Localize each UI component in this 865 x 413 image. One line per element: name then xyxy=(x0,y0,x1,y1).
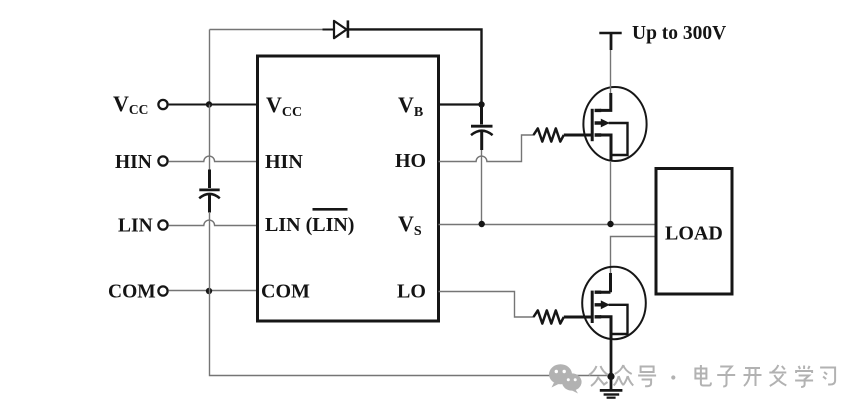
Q1 body arrow xyxy=(601,119,610,128)
char 众 xyxy=(614,365,634,386)
wire: LIN terminal to IC pin LIN (hop over vertical wire) xyxy=(169,220,258,225)
op-amp/IC U1 gate driver box xyxy=(258,56,439,321)
svg-text:VCC: VCC xyxy=(113,91,148,117)
wire: IC pin HO to gate resistor (hop over cap wire) xyxy=(439,135,535,162)
char 子 xyxy=(717,367,735,387)
wire: Vcc terminal to IC pin VCC xyxy=(169,104,258,106)
diode D1 (bootstrap diode) xyxy=(334,20,348,38)
resistor R1 (high-side gate) xyxy=(534,128,564,141)
wire: diode cathode to VB node (thick top-right corner) xyxy=(348,29,482,104)
Q2 gate electrode xyxy=(591,291,594,323)
label COM (external) xyxy=(108,282,156,303)
wire: top bootstrap rail left (Vcc node to diode anode) xyxy=(210,30,335,105)
label LOAD xyxy=(665,223,723,245)
Q1 body circle xyxy=(583,87,646,161)
wire: IC pin VS to LOAD (through VS node) xyxy=(439,224,656,226)
svg-text:COM: COM xyxy=(108,282,156,303)
wire: Q1 drain to 300V rail xyxy=(610,34,613,93)
svg-text:HIN: HIN xyxy=(265,151,303,173)
Q1 source lead xyxy=(600,135,611,162)
pin label COM (U1) xyxy=(261,281,310,303)
pin label HO (U1) xyxy=(395,150,426,172)
char 公 xyxy=(589,366,608,386)
transistor Q2 (low-side MOSFET) xyxy=(582,267,646,340)
Q2 drain lead xyxy=(600,273,611,292)
terminal COM xyxy=(158,286,167,295)
watermark text 公众号·电子开发学习 (drawn strokes) xyxy=(589,365,835,387)
Q1 gate electrode xyxy=(591,109,594,141)
Q2 body arrow xyxy=(601,300,610,309)
wire: Q1 source down to VS node xyxy=(610,161,612,225)
svg-text:LIN: LIN xyxy=(118,216,153,237)
char 号 xyxy=(638,367,656,387)
char 习 xyxy=(820,368,835,385)
separator dot xyxy=(671,375,675,379)
wire: HIN terminal to IC pin HIN (hop over vertical wire) xyxy=(169,156,258,161)
wire: Q2 source to ground node xyxy=(610,339,613,390)
node: VS-output junction xyxy=(607,221,613,227)
Q2 channel contacts xyxy=(595,292,602,317)
svg-text:Up to 300V: Up to 300V xyxy=(632,23,726,44)
Q1 channel contacts xyxy=(595,110,602,135)
node: VS-cap junction xyxy=(479,221,485,227)
node: COM junction xyxy=(206,288,212,294)
pin label VB (U1) xyxy=(398,92,423,120)
label Vcc (external) xyxy=(113,91,148,117)
node: ground junction xyxy=(607,373,614,380)
terminal Vcc xyxy=(158,100,167,109)
svg-text:HO: HO xyxy=(395,150,426,172)
label LIN (external) xyxy=(118,216,153,237)
wire: resistor R2 to Q2 gate xyxy=(564,316,592,319)
pin label VCC (U1) xyxy=(266,92,302,120)
wire: resistor R1 to Q1 gate xyxy=(564,134,592,137)
label HIN (external) xyxy=(115,152,152,173)
Q2 body circle xyxy=(582,267,646,339)
label Up to 300V xyxy=(632,23,726,44)
Q2 source lead xyxy=(600,317,611,340)
transistor Q1 (high-side MOSFET) xyxy=(583,87,646,162)
pin label HIN (U1) xyxy=(265,151,303,173)
Q2 body-to-source link xyxy=(609,305,628,334)
wire: IC pin LO to gate resistor R2 xyxy=(439,292,535,318)
char 学 xyxy=(795,366,813,388)
wire: half-bridge output to LOAD and down to Q2 drain xyxy=(611,237,656,274)
char 电 xyxy=(695,365,711,386)
wire: Vcc node down to decoupling cap C1 xyxy=(209,105,211,171)
svg-text:LOAD: LOAD xyxy=(665,223,723,245)
char 发 xyxy=(769,365,786,386)
terminal HIN xyxy=(158,156,167,165)
svg-text:COM: COM xyxy=(261,281,310,303)
ground xyxy=(600,390,623,397)
power rail: Up to 300V T-bar xyxy=(599,32,621,35)
terminal LIN xyxy=(158,220,167,229)
char 开 xyxy=(744,368,762,386)
wire: IC pin VB to VB node xyxy=(439,103,482,105)
wire: cap C2 bottom to VS node xyxy=(481,150,483,225)
resistor R2 (low-side gate) xyxy=(534,310,564,323)
pin label LO (U1) xyxy=(397,281,426,303)
pin label LIN (LIN-bar) (U1) xyxy=(265,209,354,236)
wire: COM terminal to IC pin COM xyxy=(169,290,258,292)
svg-text:LO: LO xyxy=(397,281,426,303)
node: Vcc junction xyxy=(206,101,212,107)
Q1 body-to-source link xyxy=(609,123,628,155)
capacitor C2 (bootstrap) xyxy=(471,105,493,151)
pin label VS (U1) xyxy=(398,211,422,239)
capacitor C1 (Vcc to COM decoupling) xyxy=(199,170,220,213)
node: VB junction xyxy=(478,101,484,107)
LOAD box xyxy=(656,169,732,295)
svg-text:LIN (LIN): LIN (LIN) xyxy=(265,214,354,236)
svg-text:HIN: HIN xyxy=(115,152,152,173)
watermark wechat icon xyxy=(549,364,582,393)
wire: cap C1 to COM node and down to bottom rail xyxy=(210,212,611,376)
Q1 drain lead xyxy=(600,93,611,110)
